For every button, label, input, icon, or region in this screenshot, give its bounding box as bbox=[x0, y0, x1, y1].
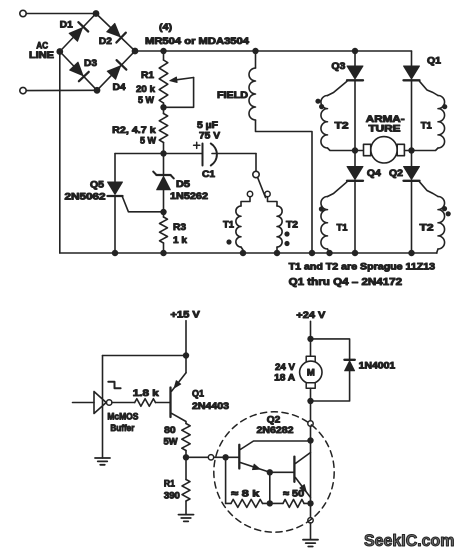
svg-text:390: 390 bbox=[164, 491, 180, 501]
svg-text:T2: T2 bbox=[420, 223, 434, 234]
svg-text:75 V: 75 V bbox=[199, 131, 221, 142]
svg-text:1N4001: 1N4001 bbox=[359, 361, 396, 372]
svg-text:2N4403: 2N4403 bbox=[192, 401, 229, 412]
svg-text:+24 V: +24 V bbox=[296, 310, 326, 321]
svg-text:D3: D3 bbox=[84, 58, 97, 69]
svg-text:D5: D5 bbox=[176, 179, 191, 190]
svg-text:T1: T1 bbox=[337, 223, 349, 234]
svg-text:1.8 k: 1.8 k bbox=[133, 388, 160, 399]
svg-text:D2: D2 bbox=[99, 36, 112, 47]
svg-text:2N5062: 2N5062 bbox=[65, 192, 106, 203]
svg-text:18 A: 18 A bbox=[274, 373, 295, 384]
svg-text:FIELD: FIELD bbox=[217, 90, 248, 101]
svg-text:T2: T2 bbox=[335, 121, 349, 132]
svg-text:T1 and T2 are Sprague 11Z13: T1 and T2 are Sprague 11Z13 bbox=[289, 262, 436, 273]
svg-text:Q1 thru Q4 – 2N4172: Q1 thru Q4 – 2N4172 bbox=[289, 277, 403, 288]
svg-text:MR504 or MDA3504: MR504 or MDA3504 bbox=[145, 36, 250, 47]
svg-text:Q3: Q3 bbox=[331, 61, 345, 72]
svg-text:1 k: 1 k bbox=[173, 235, 188, 246]
svg-text:≈ 50: ≈ 50 bbox=[283, 489, 304, 500]
svg-text:Q4: Q4 bbox=[367, 168, 382, 179]
svg-text:R1: R1 bbox=[141, 70, 155, 81]
svg-text:5 W: 5 W bbox=[140, 136, 156, 147]
svg-text:2N6282: 2N6282 bbox=[257, 425, 294, 436]
svg-text:24 V: 24 V bbox=[275, 362, 296, 373]
svg-text:Q1: Q1 bbox=[427, 56, 442, 67]
svg-text:T2: T2 bbox=[286, 220, 298, 231]
svg-text:D4: D4 bbox=[113, 82, 127, 93]
svg-text:R1: R1 bbox=[164, 479, 175, 489]
svg-text:R3: R3 bbox=[173, 222, 186, 233]
svg-text:(4): (4) bbox=[159, 22, 172, 33]
svg-text:D1: D1 bbox=[60, 20, 74, 31]
svg-text:80: 80 bbox=[164, 425, 176, 436]
svg-text:SeekIC.com: SeekIC.com bbox=[364, 532, 455, 550]
svg-text:1N5262: 1N5262 bbox=[170, 191, 208, 202]
svg-text:C1: C1 bbox=[202, 169, 216, 180]
svg-text:5W: 5W bbox=[164, 437, 178, 448]
svg-text:M: M bbox=[307, 368, 315, 379]
svg-text:5 W: 5 W bbox=[138, 95, 154, 106]
svg-text:≈ 8 k: ≈ 8 k bbox=[231, 489, 260, 500]
svg-text:20 k: 20 k bbox=[136, 84, 156, 95]
svg-text:Buffer: Buffer bbox=[110, 423, 134, 433]
svg-text:Q2: Q2 bbox=[389, 168, 403, 179]
svg-text:McMOS: McMOS bbox=[107, 412, 138, 422]
svg-text:TURE: TURE bbox=[369, 124, 401, 135]
svg-text:Q2: Q2 bbox=[267, 415, 281, 426]
svg-text:Q1: Q1 bbox=[192, 389, 205, 400]
svg-text:Q5: Q5 bbox=[90, 180, 105, 191]
svg-text:T1: T1 bbox=[223, 220, 235, 231]
svg-text:T1: T1 bbox=[421, 121, 433, 132]
svg-text:+15 V: +15 V bbox=[170, 310, 200, 321]
svg-text:R2, 4.7 k: R2, 4.7 k bbox=[112, 125, 156, 136]
svg-text:LINE: LINE bbox=[29, 50, 54, 61]
svg-text:5 µF: 5 µF bbox=[197, 120, 218, 131]
